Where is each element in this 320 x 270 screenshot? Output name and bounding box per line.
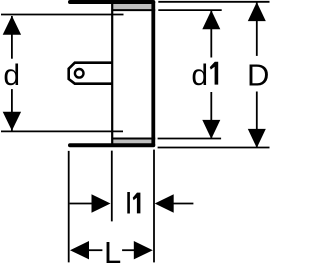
svg-text:L: L <box>104 235 121 270</box>
dimension D extension line top <box>158 1 269 3</box>
svg-text:D: D <box>247 57 269 92</box>
dimension D extension line bottom <box>158 147 270 149</box>
dimension d1 arrow up <box>202 10 220 29</box>
cap bottom wall inner surface <box>112 138 155 140</box>
dimension L arrow right-pointing <box>134 241 153 259</box>
clip hole <box>75 69 84 78</box>
clip tab outline <box>69 63 113 84</box>
dimension d line lower segment <box>11 89 13 130</box>
cap right end wall <box>151 2 155 145</box>
inner rib step bottom (also d extension line bottom) <box>1 130 123 132</box>
svg-text:d: d <box>3 59 20 92</box>
dimension d1 arrow down <box>202 120 220 139</box>
dimension d arrow down <box>3 112 21 131</box>
dimension L line right segment <box>122 249 134 251</box>
dimension d1 line upper segment <box>210 11 212 58</box>
dimension d1 extension line bottom <box>158 138 222 140</box>
dimension l1 arrow right-pointing <box>92 194 111 212</box>
cap top wall inner surface <box>112 9 155 11</box>
section fill top wall (gray) <box>113 3 153 9</box>
dimension d arrow up <box>3 16 21 35</box>
cap outer top lip <box>70 0 153 4</box>
svg-text:d: d <box>191 59 208 92</box>
L extension line right <box>153 150 155 263</box>
dimension d1 extension line top <box>158 9 221 11</box>
L extension line left <box>68 151 70 263</box>
dimension D line lower segment <box>256 92 258 148</box>
dimension d1 line lower segment <box>210 92 212 138</box>
svg-text:l: l <box>125 188 132 221</box>
dimension D arrow up <box>248 2 266 21</box>
dimension l1 arrow left-pointing <box>155 194 174 212</box>
dimension D arrow down <box>248 129 266 148</box>
dimension d1 label digit 1 <box>210 62 218 85</box>
inner rib step top (also d extension line top) <box>1 14 124 16</box>
cap outer bottom lip <box>70 143 153 147</box>
dimension L line left segment <box>89 249 103 251</box>
dimension l1 tail right <box>173 203 193 205</box>
l1 extension line middle <box>111 151 113 222</box>
cap inner sleeve wall <box>111 1 113 146</box>
dimension d line upper segment <box>11 16 13 59</box>
section fill bottom wall (gray) <box>113 139 153 143</box>
dimension L arrow left-pointing <box>70 241 89 259</box>
dimension D line upper segment <box>256 3 258 56</box>
dimension l1 label digit 1 <box>133 193 141 214</box>
dimension l1 tail left <box>70 203 93 205</box>
